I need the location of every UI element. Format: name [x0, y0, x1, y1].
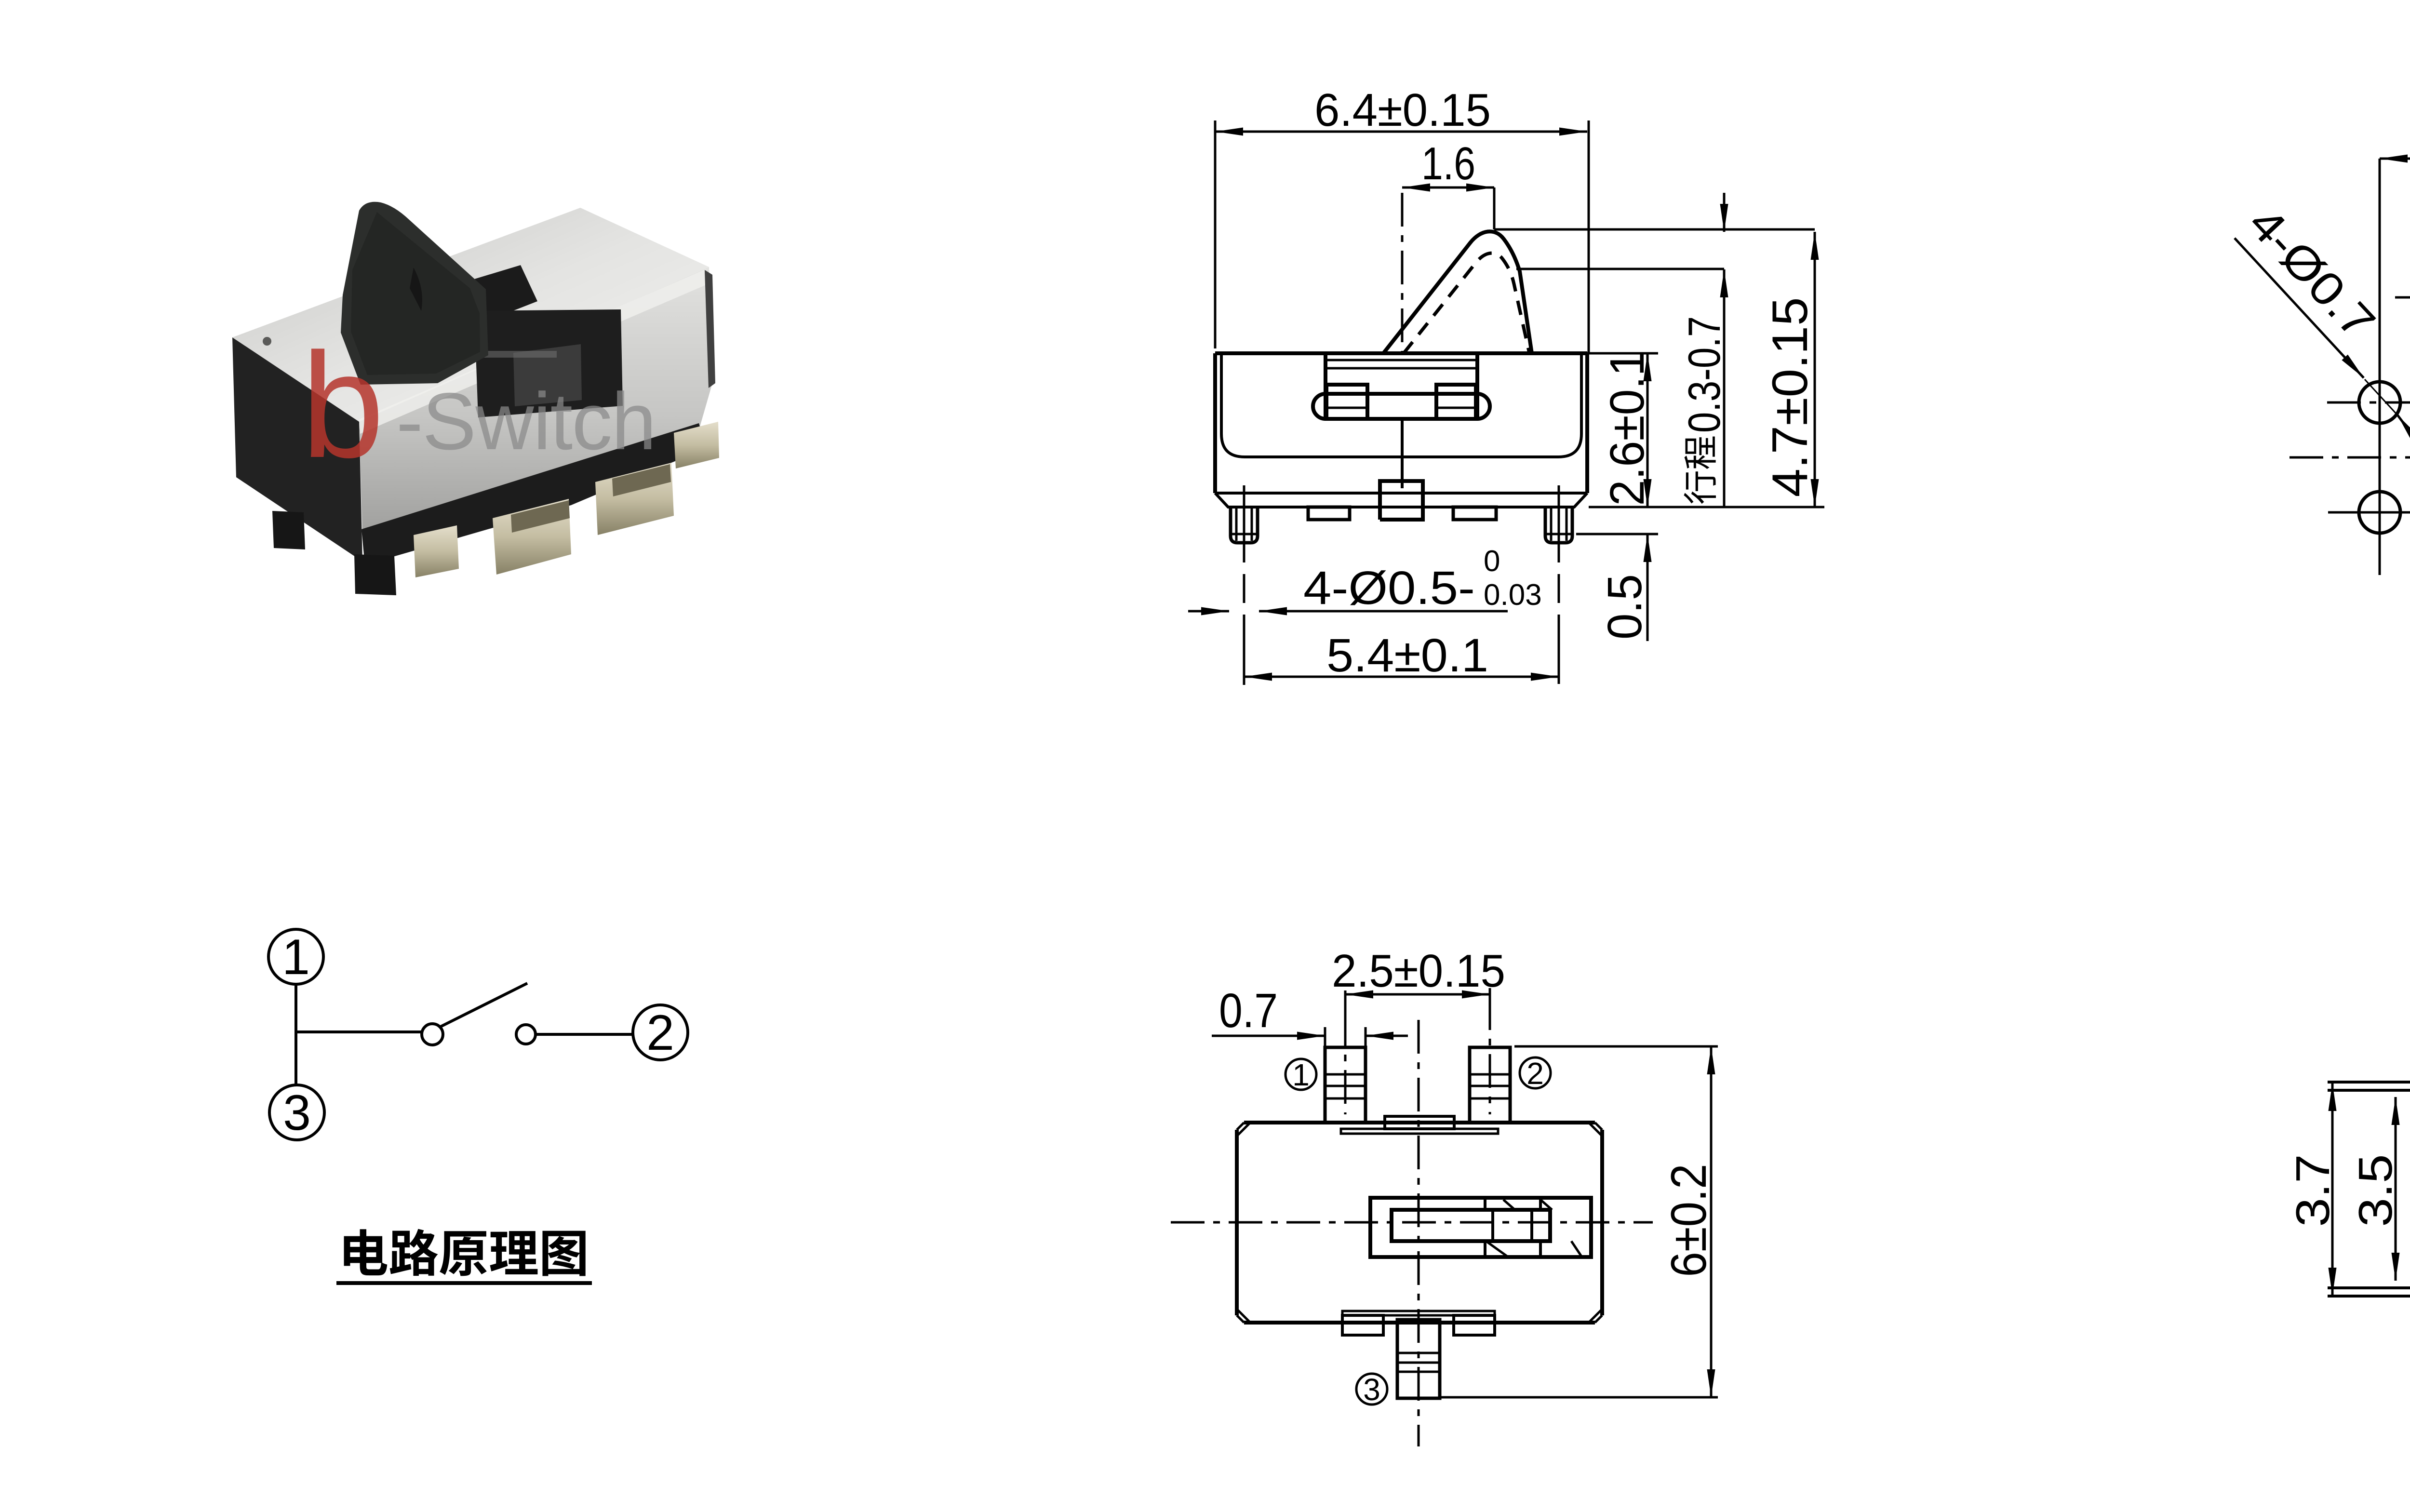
front view: dim 4.7±0.15 — [1814, 232, 1816, 507]
front view: left pin — [1231, 507, 1258, 543]
front view: lever top extension lines — [1494, 228, 1815, 231]
photo: metal pins — [414, 525, 459, 577]
schematic: right contact circle — [516, 1025, 536, 1044]
svg-text:4-Ø0.5-: 4-Ø0.5- — [1303, 562, 1475, 614]
photo: left end face black — [232, 337, 362, 562]
photo: bright fold line — [359, 269, 707, 434]
schematic: wire pin1 down — [295, 984, 297, 1032]
schematic: title 电路原理图 — [344, 1229, 388, 1275]
front view: actuator lever — [1383, 231, 1532, 353]
front view: base bottom extension — [1589, 506, 1824, 508]
svg-text:2: 2 — [646, 1005, 674, 1061]
top view: dim 2.5±0.15 — [1344, 990, 1347, 1027]
svg-text:6±0.2: 6±0.2 — [1661, 1164, 1717, 1277]
photo: slot on top face — [412, 265, 537, 327]
svg-text:2.6±0.1: 2.6±0.1 — [1600, 350, 1654, 506]
svg-text:3: 3 — [1363, 1372, 1380, 1407]
side view: cover flange rails top — [2328, 1081, 2410, 1084]
top view: centerlines — [1171, 1221, 1653, 1224]
side view: cover flange rails bottom — [2328, 1295, 2410, 1298]
svg-text:1.6: 1.6 — [1421, 138, 1475, 189]
front view: lever dashed alternate position — [1404, 253, 1529, 353]
svg-text:0: 0 — [1484, 545, 1500, 578]
svg-text:-Switch: -Switch — [396, 376, 656, 467]
schematic: terminal circle 2 — [633, 1005, 688, 1060]
photo: black feet left — [272, 511, 305, 549]
svg-text:3.5: 3.5 — [2349, 1154, 2402, 1227]
front view: body outline — [1215, 353, 1587, 493]
top view: top plate and tab — [1341, 1129, 1498, 1134]
schematic: wire junction to pin3 — [295, 1032, 297, 1085]
svg-text:2: 2 — [1526, 1056, 1544, 1091]
front view: dim 0.5 — [1576, 533, 1658, 535]
top view: pin 1 — [1325, 1047, 1366, 1123]
front view: dim 1.6 — [1493, 187, 1496, 229]
svg-text:5.4±0.1: 5.4±0.1 — [1326, 629, 1488, 682]
front view: dim 5.4±0.1 — [1244, 676, 1559, 678]
photo: actuator lever black — [341, 202, 488, 385]
top view: dim 0.7 — [1324, 1027, 1326, 1047]
top view: knob divider lines — [1484, 1198, 1486, 1210]
photo: metal cover front face — [359, 267, 712, 536]
mounting: circles row1 dash-dot — [2327, 401, 2410, 404]
schematic: left contact circle — [422, 1024, 443, 1045]
svg-text:0.7: 0.7 — [1219, 984, 1278, 1038]
front view: centerlines — [1401, 193, 1404, 353]
svg-text:0.5: 0.5 — [2408, 1157, 2410, 1225]
top view: circled pin 3 — [1356, 1374, 1387, 1405]
svg-text:0.5: 0.5 — [1598, 574, 1652, 640]
mounting: left column vertical — [2379, 159, 2381, 575]
front view: dim travel 0.3-0.7 — [1723, 193, 1726, 232]
top view: bottom plate and tabs — [1342, 1311, 1495, 1315]
svg-text:3: 3 — [283, 1085, 311, 1141]
mounting: dim 5.4 top — [2380, 158, 2410, 160]
schematic: terminal circle 3 — [269, 1085, 324, 1140]
mounting: pad row line — [2395, 296, 2410, 299]
photo: faint marking on window — [465, 351, 557, 358]
svg-text:2.5±0.15: 2.5±0.15 — [1332, 945, 1505, 997]
photo: black base band below cover — [361, 423, 706, 565]
photo: dot mark on top face — [263, 337, 271, 346]
mounting: leader 4-Ø0.7 — [2235, 238, 2364, 378]
svg-text:1: 1 — [282, 929, 310, 985]
top view: body outline with corner notches — [1237, 1123, 1602, 1323]
svg-text:4-Ø0.7: 4-Ø0.7 — [2239, 197, 2385, 348]
photo: knob inside window — [513, 344, 582, 406]
schematic: terminal circle 1 — [268, 929, 323, 984]
front view: travel label 行程 — [1685, 437, 1716, 469]
photo: metal cover top face — [232, 208, 709, 422]
svg-text:6.4±0.15: 6.4±0.15 — [1314, 84, 1491, 136]
front view: center boss — [1380, 481, 1423, 520]
top view: slider window outer — [1370, 1198, 1591, 1257]
top view: pin 2 — [1470, 1047, 1510, 1123]
front view: right pin — [1545, 507, 1572, 543]
mounting: circles row2 lines — [2328, 511, 2410, 514]
product photo of slide switch — [232, 202, 719, 595]
svg-text:4.7±0.15: 4.7±0.15 — [1762, 297, 1818, 497]
top view: pin 3 — [1397, 1320, 1440, 1398]
photo: right end sliver — [705, 270, 715, 388]
front view: cover inner line rounded corners — [1221, 355, 1581, 457]
svg-text:b: b — [301, 321, 384, 489]
front view: bottom tabs — [1308, 507, 1350, 520]
svg-text:0.3-0.7: 0.3-0.7 — [1679, 316, 1729, 433]
mounting: center horizontal dash-dot — [2289, 456, 2410, 459]
top view: dim 6±0.2 — [1514, 1045, 1718, 1048]
top view: circled pin 1 — [1285, 1059, 1316, 1090]
schematic: wire to pin2 — [536, 1033, 633, 1036]
schematic: wire to left contact — [296, 1030, 422, 1033]
svg-text:3.7: 3.7 — [2286, 1154, 2339, 1227]
mounting: via circles — [2359, 382, 2400, 423]
top view: slider window inner — [1392, 1210, 1550, 1241]
svg-text:0.03: 0.03 — [1484, 578, 1542, 612]
photo: slider window black — [474, 309, 623, 417]
schematic: switch lever arm — [440, 983, 527, 1027]
top view: knob hatch diagonals — [1503, 1200, 1515, 1210]
top view: circled pin 2 — [1520, 1057, 1551, 1088]
front view: dim 6.4±0.15 — [1214, 120, 1217, 348]
side view: dim 3.7 — [2331, 1083, 2334, 1296]
svg-text:1: 1 — [1292, 1057, 1310, 1092]
front view: slider window — [1324, 355, 1327, 419]
front view: dim 2.6±0.1 — [1587, 352, 1658, 355]
side view: dim 3.5 — [2395, 1097, 2397, 1281]
